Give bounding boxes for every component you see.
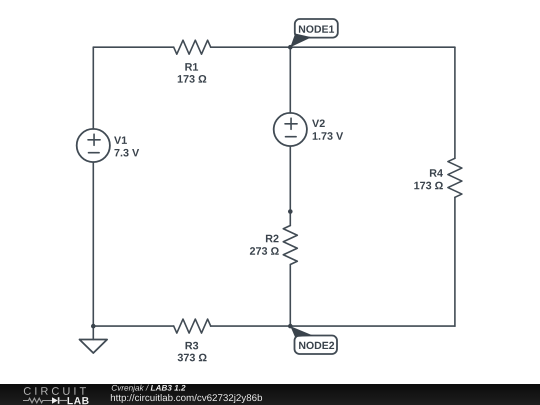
label R3 value [178,354,207,362]
resistor R3 zigzag [174,319,211,333]
NODE1 tag text [299,25,334,32]
logo CIRCUIT text [24,387,86,395]
junction dot NODE1 [288,45,293,50]
wire right vertical (R4 to bottom corner) [454,197,456,326]
wire bottom horizontal mid (R3 to NODE2) [211,325,291,327]
label R1 name [185,63,198,70]
NODE1 tag pointer [290,34,311,48]
label R3 name [186,342,199,350]
logo line after diode [59,400,67,402]
wire bottom horizontal right (NODE2 to right corner) [290,325,455,327]
resistor R4 zigzag [448,158,462,197]
wire middle vertical (junction to R2) [289,212,291,226]
footer credit italic [112,385,149,393]
ground symbol triangle [80,340,108,354]
voltage source V2 circle [274,113,307,146]
wire left vertical (V1 bottom to ground junction) [92,162,94,326]
wire middle vertical (R2 to NODE2) [289,265,291,327]
label V1 value [114,149,139,157]
label R1 value [178,75,207,83]
wire middle vertical (V2 bottom to junction) [289,146,291,212]
label R2 name [266,235,279,243]
NODE2 tag pointer [290,326,313,337]
NODE1 label box [295,19,338,38]
footer url text [111,394,262,403]
wire top horizontal mid (R1 to NODE1) [211,46,291,48]
label R4 value [414,182,443,190]
label R4 name [430,169,443,176]
footer credit bold [151,385,186,391]
logo diode [52,397,58,404]
wire middle vertical (NODE1 to V2 top) [289,47,291,113]
resistor R1 zigzag [174,40,211,54]
footer bar background [0,384,540,405]
label V2 name [312,119,325,127]
V2 minus sign [286,136,297,138]
wire top horizontal right (NODE1 to right corner) [290,46,455,48]
wire top horizontal left (corner to R1) [93,46,173,48]
NODE2 label box [295,336,338,355]
logo LAB text [68,397,89,404]
junction dot mid wire [288,209,293,214]
label V2 value [313,132,343,140]
wire left vertical (top corner to V1 top) [92,47,94,129]
V2 plus sign [285,118,297,129]
junction dot ground [91,324,96,329]
ground stub wire [92,326,94,339]
logo schematic line with resistor [23,398,52,403]
NODE2 tag text [299,342,334,349]
label R2 value [250,247,279,255]
wire right vertical (top corner to R4) [454,47,456,158]
footer bar [0,384,540,405]
V1 minus sign [89,152,100,154]
junction dot NODE2 [288,324,293,329]
label V1 name [114,136,127,143]
V1 plus sign [88,134,100,145]
wire bottom horizontal left (ground to R3) [93,325,173,327]
voltage source V1 circle [77,129,110,162]
resistor R2 zigzag [283,226,297,265]
